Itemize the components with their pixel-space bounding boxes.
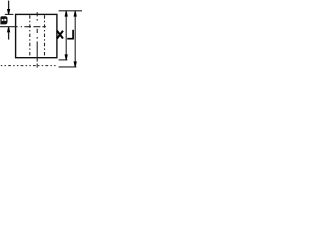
label X [57,31,63,39]
dimension X line with arrows [65,11,68,59]
label B [0,16,7,24]
dimension B line with arrows [7,1,10,40]
centerline axis [36,12,38,67]
dimension X extension line bottom [59,59,68,61]
dimension L extension line bottom [59,66,77,68]
hidden step line horizontal [0,26,46,28]
dash-dot line bushing face bottom [1,65,58,67]
dimension L line with arrows [74,11,77,66]
part outline rectangle [16,14,57,57]
hidden bore line right [44,15,46,57]
dimension B extension line top [5,13,14,15]
dimension X/L extension line top [59,10,82,12]
label L [67,30,74,39]
hidden bore line left [29,15,31,57]
